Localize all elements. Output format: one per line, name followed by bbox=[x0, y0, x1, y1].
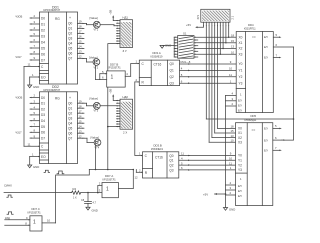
pulse waveform near DD7.A bbox=[57, 171, 64, 174]
svg-text:X0: X0 bbox=[239, 35, 243, 39]
svg-text:D2: D2 bbox=[41, 28, 45, 32]
svg-text:16: 16 bbox=[79, 114, 83, 118]
DD2 output pins Q0-Q7 bbox=[68, 99, 84, 140]
svg-text:2: 2 bbox=[34, 94, 36, 98]
svg-text:КР1533ИР37: КР1533ИР37 bbox=[44, 8, 61, 12]
svg-text:VT3: VT3 bbox=[94, 110, 99, 113]
+5V flag at XS1 pin 1 bbox=[186, 23, 204, 28]
svg-text:5: 5 bbox=[275, 124, 277, 128]
svg-text:3: 3 bbox=[34, 20, 36, 24]
svg-text:ЧЗ17: ЧЗ17 bbox=[16, 132, 23, 135]
svg-text:12: 12 bbox=[79, 55, 83, 59]
ground at S1 bbox=[160, 44, 171, 49]
svg-text:Q0: Q0 bbox=[170, 62, 174, 66]
svg-text:DD3.B: DD3.B bbox=[154, 143, 162, 147]
svg-text:4: 4 bbox=[34, 105, 36, 109]
svg-text:7: 7 bbox=[34, 123, 36, 127]
svg-text:GND: GND bbox=[33, 165, 39, 169]
transistor VT1 bbox=[84, 16, 117, 31]
svg-text:RG: RG bbox=[55, 17, 60, 21]
capacitor C4 bbox=[81, 193, 97, 208]
svg-text:13: 13 bbox=[231, 45, 235, 49]
svg-text:1: 1 bbox=[32, 73, 34, 77]
svg-text:D1: D1 bbox=[41, 22, 45, 26]
svg-text:6: 6 bbox=[275, 136, 277, 140]
DD2 input pins D0-D7 bbox=[30, 94, 45, 141]
svg-text:X0: X0 bbox=[238, 127, 242, 131]
svg-text:C: C bbox=[41, 65, 44, 69]
svg-text:7: 7 bbox=[276, 53, 278, 57]
svg-text:1: 1 bbox=[111, 75, 114, 81]
svg-text:Q5: Q5 bbox=[68, 126, 72, 130]
svg-text:ЗУ1: ЗУ1 bbox=[197, 14, 200, 19]
svg-text:15: 15 bbox=[231, 39, 235, 43]
counter DD3.B К533ИЕ19 bbox=[139, 143, 179, 178]
svg-text:GND: GND bbox=[33, 85, 39, 89]
reset line horizontal bbox=[89, 169, 133, 171]
svg-text:ЧЗОБ: ЧЗОБ bbox=[16, 16, 23, 19]
svg-text:10: 10 bbox=[231, 50, 235, 54]
svg-text:18: 18 bbox=[79, 104, 83, 108]
svg-text:+: + bbox=[69, 96, 71, 100]
svg-text:RG: RG bbox=[55, 97, 60, 101]
pulse waveform at DD7.C bbox=[7, 212, 13, 214]
svg-text:D3: D3 bbox=[41, 113, 45, 117]
svg-text:D0: D0 bbox=[41, 96, 45, 100]
svg-text:+5V: +5V bbox=[203, 192, 208, 196]
svg-text:Q3: Q3 bbox=[68, 116, 72, 120]
svg-text:Е/У: Е/У bbox=[264, 128, 268, 131]
svg-text:EO: EO bbox=[41, 75, 46, 79]
svg-text:8: 8 bbox=[34, 129, 36, 133]
svg-text:4: 4 bbox=[181, 67, 183, 71]
svg-text:D7: D7 bbox=[41, 136, 45, 140]
+5V flag at DD5 enables bbox=[203, 192, 226, 196]
svg-text:D6: D6 bbox=[41, 131, 45, 135]
svg-text:12: 12 bbox=[135, 176, 139, 180]
svg-text:Е/У: Е/У bbox=[264, 36, 268, 39]
wire DD7.C output up to reset line bbox=[56, 170, 90, 223]
svg-text:Q2: Q2 bbox=[68, 32, 72, 36]
svg-text:D7: D7 bbox=[41, 58, 45, 62]
svg-text:11: 11 bbox=[28, 142, 31, 146]
S1 right pins to bus verticals bbox=[194, 37, 229, 57]
ground under enable rail bbox=[223, 208, 235, 212]
svg-text:Q3: Q3 bbox=[170, 81, 174, 85]
comparator DD4 bbox=[231, 23, 273, 113]
svg-text:[Value]: [Value] bbox=[91, 136, 100, 140]
svg-text:Q5: Q5 bbox=[68, 47, 72, 51]
svg-text:16: 16 bbox=[79, 35, 83, 39]
svg-text:15: 15 bbox=[231, 129, 235, 133]
svg-text:5: 5 bbox=[276, 33, 278, 37]
register DD1 КР1533ИР37 bbox=[40, 6, 78, 84]
sync input net СИНХ bbox=[4, 184, 71, 198]
DD4 outputs bbox=[273, 33, 293, 58]
svg-text:1: 1 bbox=[32, 152, 34, 156]
svg-text:3: 3 bbox=[230, 186, 232, 190]
wires from bus into DD5 X inputs bbox=[209, 125, 235, 143]
svg-text:GND: GND bbox=[165, 44, 171, 48]
svg-text:ЧЗ17: ЧЗ17 bbox=[16, 56, 23, 59]
ground under DD2 bbox=[28, 165, 40, 169]
svg-text:5: 5 bbox=[102, 70, 104, 74]
svg-text:+5В: +5В bbox=[108, 89, 112, 94]
wires DD3.B Q0-Q3 to DD5 Y0-Y3 bbox=[179, 152, 236, 171]
svg-text:DD5: DD5 bbox=[251, 114, 257, 118]
svg-text:Е/У: Е/У bbox=[238, 185, 242, 188]
svg-text:8: 8 bbox=[25, 221, 27, 225]
svg-text:Q1: Q1 bbox=[170, 69, 174, 73]
wire HG2 bottom pin to same vertical bbox=[108, 126, 120, 128]
svg-text:6: 6 bbox=[276, 43, 278, 47]
transistor VT3 bbox=[84, 97, 117, 113]
svg-text:Y0: Y0 bbox=[238, 154, 242, 158]
svg-text:НД2: НД2 bbox=[123, 95, 129, 99]
svg-text:DD7.C: DD7.C bbox=[32, 207, 40, 211]
svg-text:Y2: Y2 bbox=[238, 163, 242, 167]
DD5 enable pins tied to rail bbox=[226, 181, 236, 195]
svg-text:3: 3 bbox=[99, 189, 101, 193]
svg-text:VT2: VT2 bbox=[94, 66, 99, 69]
svg-text:4: 4 bbox=[181, 157, 183, 161]
svg-text:X3: X3 bbox=[238, 140, 242, 144]
svg-text:14: 14 bbox=[79, 45, 83, 49]
svg-text:11: 11 bbox=[229, 161, 232, 165]
gate DD7.B bbox=[100, 62, 131, 87]
svg-text:К533ИЕ19: К533ИЕ19 bbox=[151, 56, 163, 59]
svg-text:D6: D6 bbox=[41, 52, 45, 56]
transistor VT4 bbox=[84, 136, 101, 170]
svg-text:18: 18 bbox=[79, 25, 83, 29]
svg-text:9: 9 bbox=[230, 60, 232, 64]
svg-text:C: C bbox=[41, 145, 44, 149]
svg-text:КМ1—8: КМ1—8 bbox=[181, 60, 191, 64]
svg-text:Y2: Y2 bbox=[239, 75, 243, 79]
svg-text:D3: D3 bbox=[41, 34, 45, 38]
DD1 output pins Q0-Q7 bbox=[68, 20, 84, 61]
svg-text:К533ИЕ19: К533ИЕ19 bbox=[151, 148, 163, 151]
svg-text:17: 17 bbox=[79, 30, 83, 34]
+5V feed to HG2 bbox=[108, 89, 116, 101]
clock wire to both registers bbox=[23, 67, 25, 147]
+5V feed to HG1 bbox=[108, 10, 116, 21]
svg-text:6: 6 bbox=[181, 166, 183, 170]
svg-text:К555ИД11: К555ИД11 bbox=[245, 119, 257, 122]
svg-text:Q1: Q1 bbox=[169, 159, 173, 163]
bus verticals from XS1 to DD4/DD5 bbox=[206, 26, 228, 143]
svg-text:Q6: Q6 bbox=[68, 52, 72, 56]
register DD2 КР1533ИР37 bbox=[40, 85, 78, 164]
svg-text:Y3: Y3 bbox=[239, 81, 243, 85]
svg-text:==: == bbox=[252, 128, 256, 132]
svg-text:6: 6 bbox=[102, 76, 104, 80]
svg-text:Е/У: Е/У bbox=[264, 150, 268, 153]
svg-text:X2: X2 bbox=[239, 47, 243, 51]
svg-text:2 Х: 2 Х bbox=[123, 131, 127, 135]
svg-text:Q3: Q3 bbox=[169, 168, 173, 172]
svg-text:7: 7 bbox=[275, 146, 277, 150]
counter DD3.A К533ИЕ19 bbox=[136, 51, 180, 85]
svg-text:+5V: +5V bbox=[186, 23, 191, 27]
svg-text:Q2: Q2 bbox=[169, 164, 173, 168]
svg-text:D1: D1 bbox=[41, 102, 45, 106]
dip switch S1 bbox=[178, 31, 194, 58]
svg-text:9: 9 bbox=[230, 152, 232, 156]
svg-text:8: 8 bbox=[34, 50, 36, 54]
svg-text:Q2: Q2 bbox=[170, 75, 174, 79]
XS1 bottom pins bbox=[204, 22, 229, 26]
svg-text:19: 19 bbox=[79, 20, 83, 24]
svg-text:13: 13 bbox=[79, 50, 83, 54]
svg-text:18: 18 bbox=[231, 125, 235, 129]
svg-text:D2: D2 bbox=[41, 107, 45, 111]
svg-text:КР1533ТЛ1: КР1533ТЛ1 bbox=[103, 178, 117, 181]
connector/display box XS1 (top, hatched) bbox=[197, 9, 235, 22]
svg-text:4: 4 bbox=[232, 92, 234, 96]
svg-text:VT1: VT1 bbox=[94, 29, 99, 32]
svg-text:4: 4 bbox=[34, 26, 36, 30]
svg-text:GND: GND bbox=[92, 209, 98, 213]
svg-text:18: 18 bbox=[231, 33, 235, 37]
DD2 C clock input pin 11 bbox=[24, 142, 44, 148]
svg-text:11: 11 bbox=[181, 152, 184, 156]
svg-text:1: 1 bbox=[33, 220, 36, 226]
svg-text:Е/У: Е/У bbox=[238, 110, 242, 113]
svg-text:2: 2 bbox=[99, 182, 101, 186]
svg-text:[Value]: [Value] bbox=[90, 97, 99, 101]
HG1 left pins bbox=[117, 21, 121, 44]
svg-text:DD4: DD4 bbox=[248, 23, 254, 27]
svg-text:6: 6 bbox=[34, 117, 36, 121]
HG2 left pins bbox=[117, 101, 121, 127]
svg-text:НД1: НД1 bbox=[123, 16, 129, 20]
svg-text:D5: D5 bbox=[41, 125, 45, 129]
svg-text:СИНХ: СИНХ bbox=[4, 184, 12, 188]
svg-text:4: 4 bbox=[126, 72, 128, 76]
DD1 input pins D0-D7 bbox=[30, 14, 45, 62]
svg-text:9: 9 bbox=[26, 216, 28, 220]
gate DD7.A bbox=[98, 174, 138, 198]
svg-text:R4: R4 bbox=[73, 187, 77, 191]
svg-text:==: == bbox=[252, 35, 256, 39]
svg-text:GND: GND bbox=[229, 208, 235, 212]
svg-text:Q0: Q0 bbox=[68, 101, 72, 105]
svg-text:Е/У: Е/У bbox=[238, 100, 242, 103]
wires from bus into DD4 X inputs bbox=[220, 37, 236, 54]
svg-text:DD3.A: DD3.A bbox=[153, 51, 161, 55]
svg-text:3: 3 bbox=[34, 100, 36, 104]
svg-text:13: 13 bbox=[231, 134, 235, 138]
svg-text:19: 19 bbox=[79, 99, 83, 103]
svg-text:Е/У: Е/У bbox=[238, 195, 242, 198]
svg-text:2: 2 bbox=[232, 102, 234, 106]
svg-text:10: 10 bbox=[47, 219, 51, 223]
svg-text:Y1: Y1 bbox=[238, 159, 242, 163]
S1 left pins to ground bus bbox=[162, 37, 178, 57]
svg-text:2: 2 bbox=[136, 78, 138, 82]
LED matrix HG2 bbox=[120, 95, 133, 135]
svg-text:X2: X2 bbox=[238, 136, 242, 140]
svg-text:Y3: Y3 bbox=[238, 168, 242, 172]
svg-text:Е/У: Е/У bbox=[264, 139, 268, 142]
svg-text:Q7: Q7 bbox=[68, 57, 72, 61]
svg-text:6: 6 bbox=[181, 79, 183, 83]
svg-text:5: 5 bbox=[181, 73, 183, 77]
svg-text:D0: D0 bbox=[41, 16, 45, 20]
svg-text:Q4: Q4 bbox=[68, 121, 72, 125]
svg-text:Е/У: Е/У bbox=[238, 190, 242, 193]
svg-text:3: 3 bbox=[232, 97, 234, 101]
svg-text:Y1: Y1 bbox=[239, 69, 243, 73]
svg-text:CT16: CT16 bbox=[155, 156, 163, 160]
svg-text:D5: D5 bbox=[41, 46, 45, 50]
svg-text:X1: X1 bbox=[238, 131, 242, 135]
svg-text:EO: EO bbox=[41, 155, 46, 159]
DD3.B R wire to reset line bbox=[136, 170, 142, 173]
svg-text:2: 2 bbox=[34, 14, 36, 18]
svg-text:4,7: 4,7 bbox=[93, 202, 97, 205]
gate DD7.C bbox=[5, 207, 56, 231]
svg-text:КЗД: КЗД bbox=[5, 217, 10, 220]
svg-text:1: 1 bbox=[230, 166, 232, 170]
comparator DD5 bbox=[236, 114, 273, 205]
svg-text:4: 4 bbox=[230, 181, 232, 185]
svg-text:1: 1 bbox=[230, 79, 232, 83]
transistor VT2 bbox=[84, 56, 100, 80]
svg-text:1: 1 bbox=[139, 151, 141, 155]
svg-text:DD7.B: DD7.B bbox=[110, 62, 118, 66]
wire DD4 cascade to DD5 bbox=[282, 47, 294, 141]
svg-text:2 1: 2 1 bbox=[232, 15, 235, 19]
svg-text:Е/У: Е/У bbox=[264, 57, 268, 60]
svg-text:13: 13 bbox=[79, 129, 83, 133]
svg-text:X3: X3 bbox=[239, 52, 243, 56]
svg-text:11: 11 bbox=[229, 73, 232, 77]
svg-text:КР1533ТЛ1: КР1533ТЛ1 bbox=[108, 67, 122, 70]
DD3.A R wire down to DD3.B C bbox=[135, 82, 143, 156]
svg-text:З У: З У bbox=[123, 49, 127, 53]
svg-text:2: 2 bbox=[230, 191, 232, 195]
svg-text:CT16: CT16 bbox=[154, 62, 162, 66]
ground under C4 bbox=[86, 207, 98, 212]
svg-text:5: 5 bbox=[181, 161, 183, 165]
DD5 outputs bbox=[273, 124, 282, 151]
svg-text:7: 7 bbox=[34, 44, 36, 48]
svg-text:X1: X1 bbox=[239, 41, 243, 45]
svg-text:Е/У: Е/У bbox=[264, 46, 268, 49]
svg-text:КР1533ИР37: КР1533ИР37 bbox=[44, 88, 61, 92]
svg-text:КР1533ТЛ1: КР1533ТЛ1 bbox=[28, 212, 42, 215]
svg-text:+: + bbox=[69, 16, 71, 20]
svg-text:S1: S1 bbox=[183, 31, 187, 35]
svg-text:12: 12 bbox=[79, 134, 83, 138]
svg-text:Y0: Y0 bbox=[239, 62, 243, 66]
svg-text:ЧЗОБ: ЧЗОБ bbox=[16, 97, 23, 100]
pulse waveform near DD2 bbox=[44, 170, 50, 172]
wire DD7.A output up to counters bbox=[132, 170, 134, 189]
svg-text:2: 2 bbox=[139, 168, 141, 172]
svg-text:9: 9 bbox=[34, 56, 36, 60]
svg-text:D4: D4 bbox=[41, 40, 45, 44]
wire DD7.B output to DD3.A C bbox=[131, 64, 140, 77]
svg-text:10: 10 bbox=[231, 138, 235, 142]
svg-text:17: 17 bbox=[79, 109, 83, 113]
svg-text:DD7.A: DD7.A bbox=[105, 174, 113, 178]
svg-text:5: 5 bbox=[34, 32, 36, 36]
svg-text:К533ЛП11: К533ЛП11 bbox=[244, 28, 256, 31]
svg-text:6: 6 bbox=[34, 38, 36, 42]
svg-text:1: 1 bbox=[106, 186, 109, 192]
svg-text:10: 10 bbox=[229, 67, 233, 71]
svg-text:11: 11 bbox=[28, 63, 31, 67]
DD1 EO enable pin 1 bbox=[30, 73, 46, 85]
DD2 EO enable pin 1 bbox=[30, 152, 46, 165]
svg-text:9: 9 bbox=[34, 134, 36, 138]
svg-text:Q7: Q7 bbox=[68, 136, 72, 140]
svg-text:D4: D4 bbox=[41, 119, 45, 123]
wires DD3.A Q0-Q3 to DD4 Y0-Y3 bbox=[180, 60, 237, 84]
ground under DD1 bbox=[28, 85, 40, 89]
svg-text:Q4: Q4 bbox=[68, 42, 72, 46]
svg-text:Q1: Q1 bbox=[68, 106, 72, 110]
wire HG1 bottom pin down bbox=[108, 44, 120, 170]
svg-text:[Value]: [Value] bbox=[90, 16, 99, 20]
svg-text:1: 1 bbox=[136, 60, 138, 64]
svg-text:Q6: Q6 bbox=[68, 131, 72, 135]
svg-text:Q3: Q3 bbox=[68, 37, 72, 41]
DD4 enable pins tied to +5V/GND rail bbox=[226, 92, 237, 208]
svg-text:Q2: Q2 bbox=[68, 111, 72, 115]
LED matrix HG1 bbox=[120, 16, 133, 54]
svg-text:5: 5 bbox=[34, 111, 36, 115]
svg-text:+5В: +5В bbox=[108, 10, 112, 15]
svg-text:14: 14 bbox=[79, 124, 83, 128]
svg-text:Е/У: Е/У bbox=[238, 105, 242, 108]
svg-text:15: 15 bbox=[79, 119, 83, 123]
DD1 C clock input pin 11 bbox=[24, 63, 44, 69]
svg-text:10: 10 bbox=[229, 157, 233, 161]
long wire from bus to right edge bbox=[206, 118, 293, 120]
svg-text:Q0: Q0 bbox=[169, 154, 173, 158]
resistor R4 bbox=[71, 187, 103, 200]
svg-text:15: 15 bbox=[79, 40, 83, 44]
svg-text:Q1: Q1 bbox=[68, 27, 72, 31]
svg-text:Q0: Q0 bbox=[68, 22, 72, 26]
svg-text:1 К: 1 К bbox=[73, 197, 77, 200]
svg-text:[Value]: [Value] bbox=[89, 56, 98, 60]
